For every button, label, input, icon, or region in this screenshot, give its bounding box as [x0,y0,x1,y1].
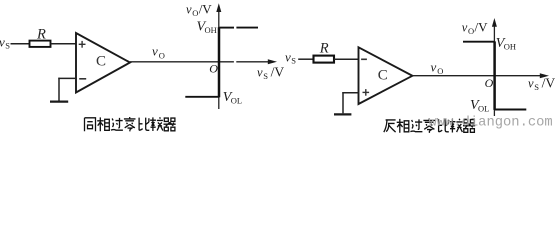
op-amp U2 minus input marker [361,58,367,60]
svg-text:R: R [36,26,46,42]
transfer curve jump (thick vertical) [218,27,221,97]
svg-text:S: S [263,71,268,81]
svg-text:R: R [319,41,329,57]
svg-text:O: O [485,76,494,90]
svg-text:OL: OL [231,95,242,105]
VOL level line (right of axis, right graph) [495,109,526,111]
op-amp U1 minus input marker [79,78,86,80]
vertical axis vO/V (thin) [218,11,220,109]
horizontal axis segment 2 with arrow (vS/V axis) [236,61,268,63]
op-amp U2 triangle [359,47,413,104]
char 同 [85,118,96,131]
wire vS to resistor [11,43,30,45]
char 较 [150,117,163,131]
svg-text:O: O [209,61,218,75]
node vO label (right output) [431,59,444,76]
char 过 [111,118,123,130]
caption left: 同相过零比较器 [85,117,176,131]
transfer curve jump (thick vertical, right graph) [493,41,496,110]
char 零 [423,119,435,133]
resistor R (left) [30,41,51,47]
char 器 [164,118,176,131]
VOL level line (left of axis) [185,96,219,98]
label VOH (graph2) [496,36,516,51]
svg-text:/V: /V [199,1,213,16]
label vS/V (graph2 x-axis) [528,76,555,93]
svg-text:O: O [159,50,165,60]
node vO label (left output) [152,44,165,61]
vertical axis vO/V (thin, right graph) [493,26,495,116]
node vS label (left input) [0,35,10,51]
svg-text:v: v [152,44,158,59]
char 零 [124,117,136,131]
svg-text:/V: /V [542,76,556,91]
svg-text:OH: OH [504,41,516,51]
svg-text:OL: OL [478,104,489,114]
VOH level line (left of axis, right graph) [463,41,494,43]
svg-text:O: O [468,26,474,36]
wire resistor to op-amp + input [51,43,77,45]
wire op-amp output / horizontal axis (vS/V axis right) [412,75,540,77]
char 相 [397,119,409,133]
wire vS to resistor (right) [298,58,313,60]
wire resistor to op-amp - input [334,58,359,60]
wire down to ground (right) [342,92,344,113]
wire down to ground [58,78,60,101]
label VOL (graph2) [470,98,489,114]
wire op-amp output / horizontal axis segment 1 [130,61,234,63]
svg-text:O: O [437,66,443,76]
svg-text:S: S [534,82,539,92]
op-amp U1 plus input marker [79,41,86,48]
svg-text:S: S [291,56,296,66]
node vS label (right input) [285,50,296,66]
svg-text:v: v [285,50,291,65]
svg-text:OH: OH [205,25,217,35]
label VOH (graph1) [197,20,217,35]
svg-text:v: v [528,77,534,91]
svg-text:v: v [431,59,437,74]
ground (right) [334,113,351,115]
label vO/V (graph2 y-axis) [462,19,488,36]
wire plus input to ground drop (right) [342,92,358,94]
char 比 [139,118,149,131]
char 过 [410,119,422,131]
op-amp U2 plus input marker [363,89,370,96]
resistor R (right) [314,56,335,63]
svg-text:/V: /V [475,19,489,34]
char 较 [450,119,463,133]
svg-text:C: C [96,53,106,69]
char 器 [463,120,475,133]
ground (left) [50,100,68,102]
char 相 [97,117,109,131]
svg-text:v: v [257,65,263,79]
char 反 [384,120,396,132]
svg-text:v: v [186,2,192,16]
label VOL (graph1) [223,90,242,106]
label vS/V (graph1 x-axis) [257,64,284,81]
label vO/V (graph1 y-axis) [186,1,212,18]
char 比 [439,119,449,132]
wire minus input to ground drop [58,77,76,79]
svg-text:O: O [192,8,198,18]
svg-text:C: C [378,67,388,83]
svg-text:S: S [5,41,10,51]
caption right: 反相过零比较器 [384,119,475,133]
op-amp U1 triangle [76,33,130,93]
svg-text:www.diangon.com: www.diangon.com [429,115,553,131]
svg-text:v: v [462,20,468,34]
svg-text:/V: /V [271,64,285,79]
VOH level line (right of axis, with scan gap) [220,27,235,29]
